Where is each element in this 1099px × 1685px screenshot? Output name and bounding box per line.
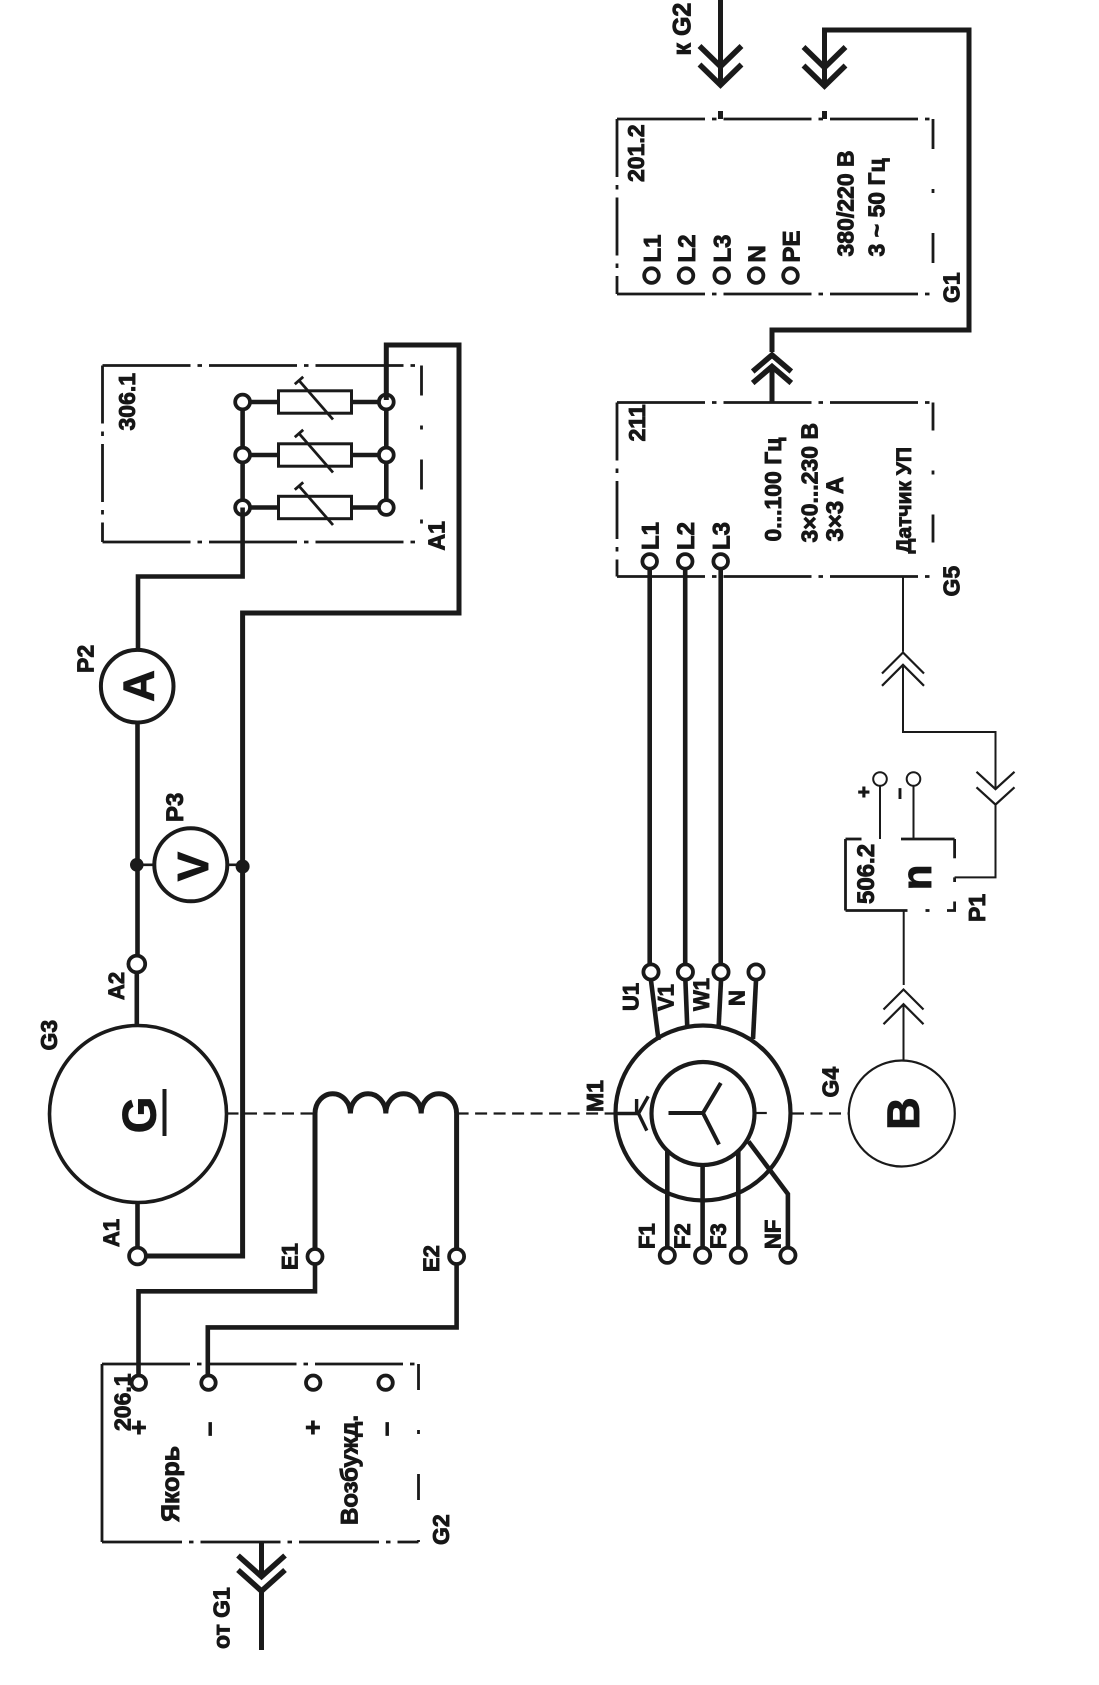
terminal right R3 xyxy=(379,500,394,515)
terminal L3 of G1 xyxy=(714,268,729,283)
polarity label armature plus xyxy=(123,1420,153,1435)
connector on P1 input wire xyxy=(977,772,1015,805)
tacho generator G4 circle xyxy=(849,1061,955,1167)
connector on wire to G2 xyxy=(700,46,742,85)
terminal L1 of block 211 xyxy=(642,554,657,569)
rotor lead F2 xyxy=(700,1164,705,1248)
right bus of resistor bank xyxy=(384,402,389,508)
terminal L2 of G1 xyxy=(679,268,694,283)
pin label N xyxy=(725,990,750,1006)
terminal V1 xyxy=(678,964,693,979)
svg-text:L1: L1 xyxy=(638,522,665,550)
pin label L2 (211) xyxy=(673,522,700,550)
terminal U1 xyxy=(643,964,658,979)
svg-text:N: N xyxy=(725,990,750,1006)
svg-text:P2: P2 xyxy=(73,645,99,673)
terminal L3 of block 211 xyxy=(713,554,728,569)
rotor lead NF xyxy=(749,1142,788,1248)
svg-text:306.1: 306.1 xyxy=(114,373,140,431)
terminal L1 of G1 xyxy=(644,268,659,283)
terminal N of G1 xyxy=(749,268,764,283)
letter V in P3 xyxy=(169,851,218,881)
speed indicator P1 (506.2) box xyxy=(846,839,955,911)
terminal A2 xyxy=(128,956,145,973)
svg-text:G3: G3 xyxy=(36,1020,62,1051)
terminal right R2 xyxy=(379,448,394,463)
voltmeter stub right xyxy=(226,863,242,866)
connector on G1 right wire xyxy=(804,47,846,86)
svg-text:Возбужд.: Возбужд. xyxy=(337,1415,364,1525)
svg-text:+: + xyxy=(854,786,876,798)
svg-text:PE: PE xyxy=(779,230,806,262)
left bus of resistor bank xyxy=(240,402,245,508)
pin label F1 xyxy=(635,1223,660,1249)
pin label A1 (G3) xyxy=(99,1219,124,1247)
polarity label armature minus xyxy=(193,1422,223,1436)
value label 3~50 Hz xyxy=(864,158,890,256)
pin label V1 xyxy=(654,984,679,1011)
pin label L3 (G1) xyxy=(710,234,737,262)
value label 0...100 Hz xyxy=(760,438,786,542)
svg-text:–: – xyxy=(193,1422,223,1436)
polarity label - (P1) xyxy=(889,788,911,799)
terminal F3 xyxy=(731,1248,746,1263)
stator lead V1 xyxy=(685,981,687,1029)
polarity label + (P1) xyxy=(854,786,876,798)
terminal field minus of G2 xyxy=(378,1376,392,1390)
stator lead N xyxy=(753,981,756,1040)
stator lead W1 xyxy=(719,981,721,1028)
terminal right R1 xyxy=(379,395,394,410)
wire E2 to armature - xyxy=(208,1264,457,1376)
connector above G4 xyxy=(884,990,924,1025)
wire P2 to junction xyxy=(135,723,140,957)
terminal left R2 xyxy=(235,448,250,463)
label к G2 xyxy=(669,3,697,56)
polarity label field minus xyxy=(370,1422,400,1436)
terminal E2 xyxy=(449,1249,464,1264)
rotor lead F1 xyxy=(665,1152,670,1248)
stator star-point symbol xyxy=(617,1096,648,1130)
value label 3x3 A xyxy=(822,477,849,542)
svg-text:506.2: 506.2 xyxy=(853,844,880,904)
pin label L3 (211) xyxy=(709,522,736,550)
svg-text:E2: E2 xyxy=(419,1245,444,1272)
terminal - of P1 xyxy=(907,772,921,839)
svg-text:F1: F1 xyxy=(635,1223,660,1249)
rheostat R2 xyxy=(250,430,379,473)
letter A in P2 xyxy=(114,670,163,702)
label 211 xyxy=(624,404,650,441)
designator G3 xyxy=(36,1020,62,1051)
load block A1 (306.1) box xyxy=(103,366,422,543)
wire E1 to armature + xyxy=(139,1264,316,1376)
svg-text:к G2: к G2 xyxy=(669,3,697,56)
svg-text:NF: NF xyxy=(761,1220,786,1249)
svg-text:+: + xyxy=(298,1420,328,1435)
svg-text:N: N xyxy=(744,245,771,262)
terminal F2 xyxy=(695,1248,710,1263)
pin label PE (G1) xyxy=(779,230,806,262)
svg-text:L2: L2 xyxy=(673,522,700,550)
svg-text:G: G xyxy=(113,1097,166,1134)
designator P2 xyxy=(73,645,99,673)
polarity label field plus xyxy=(298,1420,328,1435)
svg-text:G4: G4 xyxy=(818,1067,844,1098)
designator G2 xyxy=(428,1514,454,1545)
ammeter P2 xyxy=(101,650,174,723)
shaft coupling dashed line G3-M1 xyxy=(227,1112,616,1114)
voltmeter stub left xyxy=(139,863,155,866)
svg-text:3 ~ 50 Гц: 3 ~ 50 Гц xyxy=(864,158,890,256)
wire to G2 (top supply cable) xyxy=(718,0,723,119)
svg-text:W1: W1 xyxy=(689,978,714,1011)
terminal field plus of G2 xyxy=(306,1376,320,1390)
pin label E2 xyxy=(419,1245,444,1272)
terminal N xyxy=(748,964,763,979)
rheostat R1 xyxy=(250,377,379,420)
wire G4 to P1 xyxy=(903,910,905,1060)
svg-text:P3: P3 xyxy=(162,793,189,822)
terminal armature plus of G2 xyxy=(132,1376,146,1390)
svg-text:–: – xyxy=(370,1422,400,1436)
pin label F2 xyxy=(670,1223,695,1249)
svg-text:F2: F2 xyxy=(670,1223,695,1249)
svg-text:E1: E1 xyxy=(278,1243,303,1270)
svg-text:от G1: от G1 xyxy=(209,1587,235,1649)
label sensor УП xyxy=(893,447,916,554)
field winding coil E1-E2 xyxy=(315,1094,457,1249)
connector above block 211 xyxy=(753,355,792,383)
junction dot right of P3 xyxy=(236,860,250,874)
svg-text:A1: A1 xyxy=(99,1219,124,1247)
designator A1 (block) xyxy=(424,521,450,551)
svg-text:L2: L2 xyxy=(674,234,701,262)
svg-text:A: A xyxy=(114,670,163,702)
motor M1 inner circle (rotor) xyxy=(652,1062,755,1165)
value label 3x0...230 V xyxy=(797,423,823,543)
connector от G1 xyxy=(238,1556,285,1592)
pin label L1 (211) xyxy=(638,522,665,550)
power supply block G1 (201.2) box xyxy=(617,119,933,294)
svg-text:G5: G5 xyxy=(939,566,965,597)
terminal W1 xyxy=(713,964,728,979)
designator M1 xyxy=(582,1080,608,1112)
svg-text:V1: V1 xyxy=(654,984,679,1011)
pin label L2 (G1) xyxy=(674,234,701,262)
svg-text:3×3 А: 3×3 А xyxy=(822,477,849,542)
designator G4 xyxy=(818,1067,844,1098)
svg-text:G1: G1 xyxy=(939,272,965,303)
svg-text:В: В xyxy=(878,1097,929,1130)
terminal F1 xyxy=(660,1248,675,1263)
svg-text:F3: F3 xyxy=(706,1223,731,1249)
label от G1 xyxy=(209,1587,235,1649)
designator G5 xyxy=(939,566,965,597)
svg-text:–: – xyxy=(889,788,911,799)
letter G with underline in G3 xyxy=(113,1089,166,1136)
letter n display xyxy=(893,865,940,891)
rotor lead F3 xyxy=(736,1152,741,1248)
wire from G1 to transformer loop xyxy=(772,30,969,403)
voltmeter P3 xyxy=(154,828,227,901)
wire from resistor bank left bus to ammeter P2 xyxy=(138,508,243,650)
pin label E1 xyxy=(278,1243,303,1270)
wire from resistor bank right bus to A1 terminal of G3 xyxy=(146,345,459,1256)
terminal NF xyxy=(780,1248,795,1263)
junction dot left of P3 xyxy=(130,858,144,872)
wire from G1 (bottom cable) xyxy=(259,1542,264,1650)
label 306.1 xyxy=(114,373,140,431)
svg-text:Датчик УП: Датчик УП xyxy=(893,447,916,554)
pin label L1 (G1) xyxy=(640,234,667,262)
svg-text:0...100 Гц: 0...100 Гц xyxy=(760,438,786,542)
designator P1 xyxy=(964,894,990,922)
pin label F3 xyxy=(706,1223,731,1249)
svg-text:U1: U1 xyxy=(619,983,644,1011)
rotor star symbol xyxy=(669,1083,721,1145)
letter В inside G4 xyxy=(878,1097,929,1130)
frequency converter block G5 (211) box xyxy=(617,403,933,577)
svg-text:+: + xyxy=(123,1420,153,1435)
terminal PE of G1 xyxy=(783,268,798,283)
wire G3 to A1 terminal xyxy=(135,1203,140,1248)
label 506.2 xyxy=(853,844,880,904)
svg-text:G2: G2 xyxy=(428,1514,454,1545)
svg-text:P1: P1 xyxy=(964,894,990,922)
stator lead U1 xyxy=(651,981,659,1041)
wire L1 to U1 xyxy=(647,569,652,964)
connector below block 211 xyxy=(882,653,924,686)
svg-text:V: V xyxy=(169,851,218,881)
svg-text:M1: M1 xyxy=(582,1080,608,1112)
svg-text:L3: L3 xyxy=(709,522,736,550)
svg-text:3×0...230 В: 3×0...230 В xyxy=(797,423,823,543)
svg-text:211: 211 xyxy=(624,404,650,441)
wire A2 to G3 xyxy=(135,973,140,1027)
shaft coupling dashed line M1-G4 xyxy=(755,1112,849,1115)
terminal left R1 xyxy=(235,395,250,410)
pin label U1 xyxy=(619,983,644,1011)
svg-text:380/220 В: 380/220 В xyxy=(833,150,859,256)
terminal + of P1 xyxy=(873,772,887,839)
rheostat R3 xyxy=(250,482,379,525)
svg-text:L1: L1 xyxy=(640,234,667,262)
svg-text:201.2: 201.2 xyxy=(623,124,649,182)
label Якорь xyxy=(157,1446,185,1522)
label Возбужд. xyxy=(337,1415,364,1525)
label 201.2 xyxy=(623,124,649,182)
generator G3 circle xyxy=(50,1026,227,1203)
wire L3 to W1 xyxy=(718,569,723,964)
terminal left R3 xyxy=(235,500,250,515)
wire L2 to V1 xyxy=(683,569,688,964)
DC supply block G2 (206.1) box xyxy=(102,1364,419,1542)
pin label NF xyxy=(761,1220,786,1249)
svg-text:L3: L3 xyxy=(710,234,737,262)
value label 380/220 V xyxy=(833,150,859,256)
svg-text:A1: A1 xyxy=(424,521,450,551)
pin label A2 xyxy=(104,972,129,1000)
motor M1 outer circle (stator) xyxy=(616,1026,791,1201)
svg-text:Якорь: Якорь xyxy=(157,1446,185,1522)
terminal L2 of block 211 xyxy=(678,554,693,569)
designator P3 xyxy=(162,793,189,822)
pin label W1 xyxy=(689,978,714,1011)
wire Датчик УП to P1 xyxy=(903,578,996,878)
pin label N (G1) xyxy=(744,245,771,262)
terminal E1 xyxy=(308,1249,323,1264)
label 206.1 xyxy=(110,1373,136,1431)
terminal armature minus of G2 xyxy=(201,1376,215,1390)
designator G1 xyxy=(939,272,965,303)
terminal A1 of G3 xyxy=(129,1248,146,1265)
svg-text:A2: A2 xyxy=(104,972,129,1000)
svg-text:n: n xyxy=(893,865,940,891)
